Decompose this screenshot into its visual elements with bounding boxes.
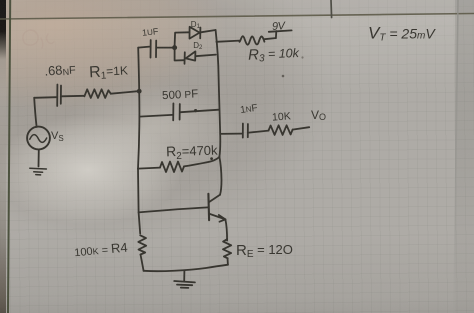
resistor R4 bbox=[138, 235, 146, 254]
wire input down to source bbox=[34, 98, 36, 127]
wire emitter down bbox=[225, 219, 227, 240]
label 9V bbox=[272, 20, 287, 33]
wire R2 rung left bbox=[138, 168, 160, 169]
wire D1 to right rail bbox=[201, 30, 216, 32]
wire left rail lower bbox=[138, 169, 140, 234]
stray pen dot bbox=[282, 75, 285, 78]
diode D2 bbox=[185, 51, 196, 63]
resistor RE bbox=[223, 239, 231, 258]
capacitor C1 1uF bbox=[151, 40, 157, 58]
label R2=470k bbox=[166, 142, 219, 163]
top margin rule of notebook page bbox=[0, 14, 474, 20]
wire R4 to bottom bbox=[141, 255, 144, 271]
wire to R3 bbox=[216, 41, 239, 42]
stray pen dot 2 bbox=[301, 56, 303, 58]
junction blob R2/rail bbox=[210, 157, 213, 160]
wire D2 to right rail bbox=[195, 55, 216, 57]
capacitor 68nF bbox=[57, 85, 61, 107]
label 1uF (top) bbox=[142, 26, 160, 38]
wire output tap from rail bbox=[220, 133, 242, 135]
shading above top rule bbox=[0, 0, 474, 19]
ground (bottom) bbox=[174, 271, 195, 288]
label R3=10k bbox=[248, 45, 300, 65]
wire 500pF rung right bbox=[181, 110, 219, 113]
wire right rail to collector bbox=[219, 157, 221, 195]
resistor R2 bbox=[160, 162, 184, 172]
wire C1 to node B bbox=[157, 47, 172, 49]
wire 10K to Vo bbox=[293, 127, 310, 129]
source Vs bbox=[27, 127, 50, 150]
wire bottom rail bbox=[144, 265, 228, 271]
wire node B up to D1 bbox=[175, 32, 189, 45]
wire top branch from rail bbox=[138, 47, 149, 48]
label 500pF bbox=[162, 88, 199, 102]
diode D1 bbox=[190, 27, 201, 39]
wire cap to 10K bbox=[249, 131, 269, 133]
wire base rung bbox=[139, 207, 208, 212]
wire node B down to D2 bbox=[175, 50, 184, 61]
wire left rail upper bbox=[138, 48, 139, 92]
wire RE to bottom rail bbox=[227, 258, 229, 264]
node B (diode branch split) bbox=[172, 45, 177, 50]
wire left rail middle bbox=[138, 91, 139, 168]
wire 500pF rung left bbox=[139, 115, 172, 117]
resistor 10K output bbox=[269, 125, 293, 135]
wire R2 to right rail bbox=[184, 157, 219, 167]
left margin rule of notebook page bbox=[8, 0, 10, 313]
transistor Q1 bbox=[207, 194, 210, 220]
capacitor 1uF output bbox=[243, 124, 248, 138]
wire cap to R1 bbox=[62, 95, 85, 98]
label 10K (output) bbox=[272, 110, 291, 123]
eraser smudge bbox=[23, 30, 54, 48]
wire R1 to node bbox=[111, 91, 138, 94]
label 100K = R4 bbox=[74, 240, 129, 260]
junction dot 500pF bbox=[194, 109, 197, 112]
label .68nF bbox=[44, 61, 77, 78]
wire source to ground bbox=[38, 150, 40, 167]
capacitor 500pF bbox=[173, 103, 180, 120]
resistor R1 bbox=[84, 89, 110, 98]
wire input top-left horizontal bbox=[34, 96, 56, 99]
label 1uF (output) bbox=[240, 103, 259, 116]
ground (source) bbox=[30, 168, 47, 175]
node A (R1 / C1 / rail junction) bbox=[137, 89, 142, 94]
9V supply bar bbox=[269, 30, 292, 38]
label R1=1K bbox=[89, 62, 129, 82]
vertical pen tick at top bbox=[330, 0, 333, 18]
wire right rail upper bbox=[216, 30, 221, 157]
resistor R3 bbox=[240, 36, 265, 44]
wire R3 to 9V bbox=[264, 38, 275, 39]
